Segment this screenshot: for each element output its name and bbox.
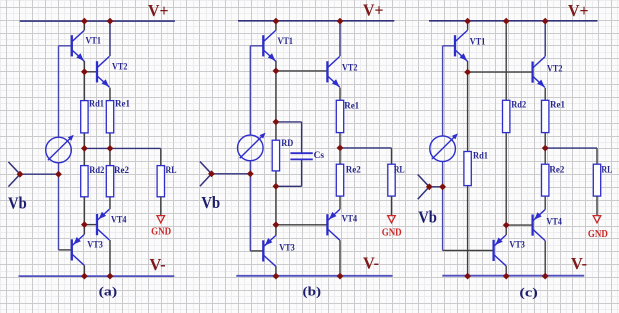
transistor VT4 (c) (PNP) xyxy=(533,210,545,241)
wire VT1 base lead (c) xyxy=(443,45,455,47)
wire VT3 collector to V- rail (b) xyxy=(275,266,277,276)
wire Cs branch top (b) xyxy=(276,121,302,123)
wire Rd1 bottom to mid node (a) xyxy=(83,133,85,149)
svg-text:VT4: VT4 xyxy=(111,215,127,225)
svg-text:Rd1: Rd1 xyxy=(89,100,104,110)
wire input wire (a) xyxy=(20,173,59,175)
signal source Vb (a) (circle with arrow) xyxy=(46,135,74,163)
svg-text:V-: V- xyxy=(150,255,166,274)
wire input column mid (a) xyxy=(58,163,60,175)
transistor VT4 (b) (PNP) xyxy=(327,209,339,240)
V- power rail (a) xyxy=(19,275,175,277)
wire mid node to Re2 top (a) xyxy=(109,148,111,165)
wire input column upper (a) xyxy=(58,46,60,138)
svg-text:VT4: VT4 xyxy=(342,215,358,225)
junction node B1 (a) xyxy=(81,68,88,75)
wire input column upper (b) xyxy=(249,46,251,135)
junction V- rail / VT4 collector (c) xyxy=(542,273,549,280)
svg-text:Cs: Cs xyxy=(314,151,325,161)
wire node B1 to Rd1 top (a) xyxy=(83,72,85,101)
transistor VT3 (c) (PNP) xyxy=(494,235,506,266)
wire Rd1 bottom to V- rail (c) xyxy=(467,186,469,277)
transistor VT3 (b) (PNP) xyxy=(263,236,275,267)
junction V+ rail / VT2 collector (b) xyxy=(337,18,344,25)
svg-text:V+: V+ xyxy=(568,1,589,20)
resistor Rd1 (a) xyxy=(81,101,88,133)
svg-text:Vb: Vb xyxy=(418,207,437,226)
svg-text:(c): (c) xyxy=(519,285,538,300)
junction input / source node (a) xyxy=(55,171,62,178)
svg-text:V-: V- xyxy=(363,253,379,272)
svg-text:VT2: VT2 xyxy=(342,64,358,74)
wire VT4 collector to V- rail (c) xyxy=(544,241,546,277)
resistor Rd2 (a) xyxy=(81,166,88,197)
wire VT1 base lead (a) xyxy=(59,45,72,47)
resistor Re2 (a) xyxy=(106,166,113,197)
svg-text:GND: GND xyxy=(151,226,171,238)
wire input column mid (c) xyxy=(442,162,444,187)
svg-text:VT1: VT1 xyxy=(278,37,294,47)
wire mid wire to RL top (a) xyxy=(160,148,162,165)
wire mid wire to RL top (c) xyxy=(596,148,598,164)
wire VT1 base lead (b) xyxy=(250,45,263,47)
wire GND (b) to ground xyxy=(391,196,393,215)
input terminal Vb input (a) xyxy=(8,162,20,187)
svg-text:Re1: Re1 xyxy=(344,101,359,111)
svg-text:RL: RL xyxy=(394,166,405,176)
svg-text:GND: GND xyxy=(382,227,402,239)
wire GND (c) to ground xyxy=(596,196,598,215)
wire input wire (b) xyxy=(212,173,251,175)
resistor Re1 (b) xyxy=(336,100,343,132)
resistor Rd2 (c) xyxy=(503,100,510,132)
svg-text:Re2: Re2 xyxy=(549,166,564,176)
wire V+ rail to VT1 collector (c) xyxy=(467,21,469,30)
transistor VT2 (b) (NPN) xyxy=(327,56,339,87)
svg-text:VT1: VT1 xyxy=(470,38,486,48)
svg-text:VT3: VT3 xyxy=(509,240,525,250)
junction node RD bottom (b) xyxy=(273,183,280,190)
transistor VT1 (c) (NPN) xyxy=(455,30,467,61)
wire Re1 bottom to mid node (a) xyxy=(109,133,111,149)
svg-text:Rd2: Rd2 xyxy=(511,101,526,111)
wire node B4 to VT3 emitter (c) xyxy=(505,225,507,235)
svg-text:V-: V- xyxy=(571,254,587,273)
svg-text:GND: GND xyxy=(588,228,608,240)
junction V+ rail / VT2 collector (c) xyxy=(542,18,549,25)
svg-text:VT4: VT4 xyxy=(546,218,562,228)
svg-text:Re2: Re2 xyxy=(114,166,129,176)
wire input column lower (b) xyxy=(249,174,251,251)
svg-text:Re2: Re2 xyxy=(346,166,361,176)
junction input terminal node (c) xyxy=(426,183,433,190)
transistor VT4 (a) (PNP) xyxy=(97,209,109,240)
resistor RD (b) xyxy=(272,140,279,171)
transistor VT3 (a) (PNP) xyxy=(72,235,84,266)
wire V+ rail to VT2 collector (c) xyxy=(544,21,546,56)
wire node B1 to VT2 base (c) xyxy=(468,71,533,73)
wire V+ rail to VT1 collector (a) xyxy=(83,21,85,30)
wire input column mid (b) xyxy=(249,161,251,174)
wire mid node to Re2 top (b) xyxy=(339,148,341,164)
wire mid node horizontal (b) xyxy=(340,147,392,149)
junction V- rail / VT3 collector (c) xyxy=(503,273,510,280)
ground symbol GND (c) xyxy=(593,216,601,223)
svg-text:VT3: VT3 xyxy=(87,240,103,250)
svg-text:(a): (a) xyxy=(99,284,118,299)
junction mid node (c) xyxy=(542,145,549,152)
wire node B1 to node RD-top (b) xyxy=(275,71,277,122)
wire VT2 emitter to Re1 top (a) xyxy=(109,88,111,101)
wire V+ rail to VT2 collector (a) xyxy=(109,21,111,56)
wire VT4 collector to V- rail (a) xyxy=(109,240,111,276)
wire input column upper (c) xyxy=(442,46,444,136)
V+ power rail (b) xyxy=(238,20,394,22)
wire V+ rail to Rd2 top (c) xyxy=(505,21,507,100)
svg-text:Vb: Vb xyxy=(201,193,220,212)
wire RD bottom to node RD-bot (b) xyxy=(275,171,277,186)
resistor Re1 (a) xyxy=(106,101,113,133)
resistor RL (c) xyxy=(593,164,600,196)
wire Cs top lead (b) xyxy=(301,122,303,153)
transistor VT1 (a) (NPN) xyxy=(72,30,84,61)
wire VT2 emitter to Re1 top (b) xyxy=(339,88,341,101)
junction input / source node (c) xyxy=(439,183,446,190)
resistor Rd1 (c) xyxy=(464,152,471,186)
svg-text:VT2: VT2 xyxy=(112,63,128,73)
input terminal Vb input (c) xyxy=(418,175,430,200)
signal source Vb (b) (circle with arrow) xyxy=(238,133,266,161)
wire VT1 emitter to node B1 (a) xyxy=(83,61,85,72)
ground symbol GND (b) xyxy=(388,216,396,223)
junction node B1 (b) xyxy=(273,68,280,75)
wire node B4 to VT4 base (c) xyxy=(506,224,532,226)
wire GND (a) to ground xyxy=(160,197,162,215)
resistor RL (b) xyxy=(388,164,395,196)
signal source Vb (c) (circle with arrow) xyxy=(430,133,458,161)
ground symbol GND (a) xyxy=(157,216,165,223)
svg-text:Re1: Re1 xyxy=(115,100,130,110)
junction mid node (b) xyxy=(337,145,344,152)
svg-text:(b): (b) xyxy=(303,284,322,299)
wire VT3 base lead (c) xyxy=(443,249,494,251)
junction V- rail / VT3 collector (b) xyxy=(273,273,280,280)
capacitor Cs (b) xyxy=(290,153,312,159)
wire node B1 to Rd1 top (c) xyxy=(467,72,469,151)
wire mid node horizontal (c) xyxy=(545,147,597,149)
svg-text:RD: RD xyxy=(281,139,293,149)
wire node RD-top to RD (b) xyxy=(275,122,277,140)
wire input column lower (c) xyxy=(442,187,444,251)
svg-text:V+: V+ xyxy=(363,0,384,19)
wire VT3 collector to V- rail (a) xyxy=(83,265,85,276)
wire Re2 bottom to VT4 emitter (a) xyxy=(109,197,111,209)
wire VT2 emitter to Re1 top (c) xyxy=(544,88,546,100)
svg-text:V+: V+ xyxy=(148,1,169,20)
wire input column lower (a) xyxy=(58,174,60,250)
wire Re1 bottom to mid node (c) xyxy=(544,133,546,149)
junction V- rail / VT3 collector (a) xyxy=(81,273,88,280)
junction V+ rail / Rd2 (c) xyxy=(503,18,510,25)
wire Cs branch bottom (b) xyxy=(276,185,302,187)
transistor VT2 (a) (NPN) xyxy=(97,56,109,87)
wire VT3 collector to V- rail (c) xyxy=(505,266,507,276)
V- power rail (b) xyxy=(236,275,392,277)
input terminal Vb input (b) xyxy=(200,162,212,187)
wire Rd2 bottom to node B4 (a) xyxy=(83,197,85,225)
junction V+ rail / VT1 collector (c) xyxy=(464,18,471,25)
wire VT3 base lead (b) xyxy=(250,250,263,252)
junction V+ rail / VT1 collector (a) xyxy=(81,18,88,25)
wire node RD-bot to node B4 (b) xyxy=(275,186,277,225)
junction input terminal node (b) xyxy=(208,170,215,177)
junction V- rail / Rd1 (c) xyxy=(464,273,471,280)
wire Re2 bottom to VT4 emitter (c) xyxy=(544,196,546,210)
svg-text:Rd2: Rd2 xyxy=(89,166,104,176)
junction node B4 (a) xyxy=(81,221,88,228)
wire node B4 to VT4 base (a) xyxy=(84,224,97,226)
transistor VT2 (c) (NPN) xyxy=(533,57,545,88)
resistor Re2 (b) xyxy=(336,164,343,196)
junction V+ rail / VT1 collector (b) xyxy=(273,18,280,25)
junction node B1 (c) xyxy=(464,69,471,76)
resistor Re2 (c) xyxy=(542,164,549,196)
transistor VT1 (b) (NPN) xyxy=(263,30,275,61)
wire node B1 to VT2 base (a) xyxy=(84,71,97,73)
svg-text:RL: RL xyxy=(601,166,612,176)
svg-text:VT3: VT3 xyxy=(279,243,295,253)
junction node RD top (b) xyxy=(273,119,280,126)
wire mid node to Re2 top (c) xyxy=(544,148,546,164)
wire VT1 emitter to node B1 (b) xyxy=(275,61,277,71)
wire VT1 emitter to node B1 (c) xyxy=(467,61,469,72)
junction node B4 (c) xyxy=(503,222,510,229)
junction V- rail / VT4 collector (a) xyxy=(107,273,114,280)
svg-text:Vb: Vb xyxy=(8,194,27,213)
svg-text:RL: RL xyxy=(166,166,177,176)
wire mid node horizontal (a) xyxy=(84,147,160,149)
wire VT3 base lead (a) xyxy=(59,249,72,251)
wire input wire (c) xyxy=(429,186,442,188)
wire node B1 to VT2 base (b) xyxy=(276,70,328,72)
svg-text:Rd1: Rd1 xyxy=(473,151,488,161)
wire node B4 to VT4 base (b) xyxy=(276,224,328,226)
wire Re2 bottom to VT4 emitter (b) xyxy=(339,196,341,209)
svg-text:VT1: VT1 xyxy=(86,36,102,46)
svg-text:Re1: Re1 xyxy=(550,101,565,111)
svg-text:VT2: VT2 xyxy=(547,64,563,74)
junction node B4 (b) xyxy=(273,221,280,228)
wire Re1 bottom to mid node (b) xyxy=(339,133,341,148)
V- power rail (c) xyxy=(442,275,584,277)
junction V+ rail / VT2 collector (a) xyxy=(107,18,114,25)
wire V+ rail to VT2 collector (b) xyxy=(339,21,341,56)
V+ power rail (a) xyxy=(20,20,175,22)
resistor RL (a) xyxy=(157,166,164,197)
wire mid node to Rd2 top (a) xyxy=(83,148,85,165)
wire Rd2 bottom to node B4 (c) xyxy=(505,133,507,226)
resistor Re1 (c) xyxy=(542,100,549,132)
wire Cs bottom lead (b) xyxy=(301,159,303,186)
junction mid node Rd (a) xyxy=(81,145,88,152)
junction V- rail / VT4 collector (b) xyxy=(337,273,344,280)
wire VT4 collector to V- rail (b) xyxy=(339,240,341,276)
junction mid node Re (a) xyxy=(107,145,114,152)
junction input terminal node (a) xyxy=(17,171,24,178)
wire node B4 to VT3 emitter (a) xyxy=(83,225,85,235)
junction input / source node (b) xyxy=(247,170,254,177)
wire node B4 to VT3 emitter (b) xyxy=(275,225,277,236)
wire V+ rail to VT1 collector (b) xyxy=(275,21,277,30)
wire mid wire to RL top (b) xyxy=(391,148,393,164)
V+ power rail (c) xyxy=(429,20,598,22)
